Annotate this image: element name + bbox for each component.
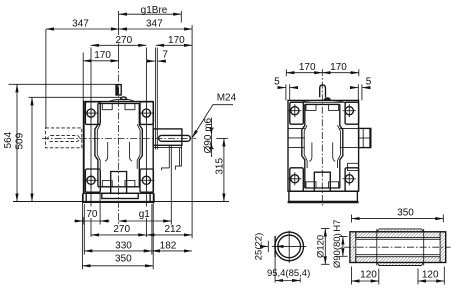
svg-text:70: 70 xyxy=(86,209,98,220)
dim 95,4 extension right xyxy=(299,278,301,283)
svg-text:g1Bre: g1Bre xyxy=(141,5,168,16)
side window bottom notch left xyxy=(306,182,316,188)
shaft bottom wall hatched xyxy=(356,257,440,263)
dim g1Bre right tick xyxy=(180,11,182,23)
dim 120 left line xyxy=(352,280,379,282)
inner rib left xyxy=(105,142,108,161)
bottom extension line 350-right xyxy=(152,194,154,269)
inner window right profile xyxy=(139,103,142,186)
bolt hole bottom-left xyxy=(83,173,99,189)
dim 95,4 arrows xyxy=(275,280,300,282)
dim 120 right line xyxy=(418,280,444,282)
dim 330 line xyxy=(84,250,152,252)
flange step bracket right xyxy=(175,145,181,169)
side bolt hole top-right xyxy=(343,104,356,117)
shaft right end cap hatched xyxy=(440,232,446,263)
ground baseline thin xyxy=(13,201,229,203)
side band line lower xyxy=(288,147,305,149)
extension dashed line from 347 left xyxy=(45,29,47,128)
top dome plug xyxy=(121,97,127,100)
center line vertical of side view xyxy=(321,69,323,206)
center line vertical of front view xyxy=(118,11,120,35)
side protruding flange block xyxy=(359,128,371,147)
side foot block xyxy=(289,191,358,201)
side window left profile xyxy=(302,104,305,188)
shaft top wall hatched xyxy=(356,232,440,238)
dim 212 line xyxy=(147,234,192,236)
bulge edge vertical left xyxy=(376,229,378,266)
svg-text:5: 5 xyxy=(274,76,280,87)
7-gap line b xyxy=(156,48,158,150)
dim D120 ticks xyxy=(321,228,330,230)
hidden coupling rectangle (dashed) xyxy=(46,128,82,148)
bottom extension line 182-left xyxy=(151,204,153,255)
svg-text:509: 509 xyxy=(14,132,25,149)
dim 350 shaft line xyxy=(352,218,444,220)
bottom center pocket xyxy=(111,172,127,194)
svg-text:350: 350 xyxy=(115,253,132,264)
svg-text:347: 347 xyxy=(146,19,163,30)
dim 347 right line xyxy=(119,28,192,30)
shaft left end cap hatched xyxy=(350,232,356,263)
svg-text:212: 212 xyxy=(164,224,181,235)
dim 182 line xyxy=(152,250,192,252)
dim 350 line xyxy=(82,265,153,267)
side bolt hole bottom-right xyxy=(343,172,356,185)
side inner window top edge xyxy=(305,103,340,105)
inner window top notch left xyxy=(102,103,112,109)
inner contour right xyxy=(137,124,140,169)
inner rib right xyxy=(130,142,133,161)
bolt hole bottom-right xyxy=(139,173,155,189)
hidden input shaft pill (dashed) xyxy=(48,135,80,141)
inner window top notch right xyxy=(125,103,135,109)
svg-text:25(22): 25(22) xyxy=(254,233,265,260)
section keyway chord xyxy=(274,236,276,257)
shaft mid bulge top xyxy=(377,229,424,232)
extension line right of 347/170/212/182 xyxy=(191,25,193,238)
svg-text:350: 350 xyxy=(397,208,414,219)
side bolt hole bottom-left xyxy=(288,172,301,185)
dim 170 top-left line xyxy=(83,60,119,62)
housing left outer edge line xyxy=(82,53,84,202)
top shaft stub xyxy=(116,85,121,95)
bottom extension line 350-left xyxy=(81,194,83,269)
dim D90(80) ticks xyxy=(339,236,348,238)
svg-text:330: 330 xyxy=(115,240,132,251)
509 reference line xyxy=(29,96,123,98)
side top stub (rounded) xyxy=(320,85,326,97)
shaft bore line bottom xyxy=(356,254,440,256)
side dim 5 right xyxy=(350,87,358,89)
side housing top crown xyxy=(300,100,345,102)
svg-text:g1: g1 xyxy=(139,209,151,220)
side inner contour right xyxy=(338,125,341,168)
svg-text:Ø120: Ø120 xyxy=(316,235,327,258)
foot left outer xyxy=(82,193,84,201)
dim 120 right ticks xyxy=(417,269,419,285)
dim 7 arrows xyxy=(147,60,155,62)
inner window bottom notch right xyxy=(125,181,135,187)
svg-text:120: 120 xyxy=(360,270,377,281)
bulge edge vertical right xyxy=(423,229,425,266)
bottom lug right xyxy=(140,169,153,192)
dim g1Bre line xyxy=(119,13,181,15)
svg-text:170: 170 xyxy=(299,62,316,73)
foot left inner xyxy=(85,192,87,201)
svg-text:347: 347 xyxy=(72,19,89,30)
side right boss rect xyxy=(348,163,359,170)
svg-text:170: 170 xyxy=(168,35,185,46)
dim 25(22) arrows xyxy=(262,245,268,247)
section circle inner xyxy=(278,235,301,258)
shaft outer rect xyxy=(350,232,446,263)
dim 350 shaft ticks xyxy=(351,215,353,223)
svg-text:Ø90(80): Ø90(80) xyxy=(332,233,343,268)
side shaft axis short xyxy=(288,137,305,139)
shaft bore line top xyxy=(356,238,440,240)
side window bottom edge xyxy=(305,187,340,189)
side dim 170 right line xyxy=(322,72,359,74)
shaft mid bulge bottom xyxy=(377,263,424,266)
dim 70 arrows and ticks xyxy=(74,220,83,222)
svg-text:182: 182 xyxy=(160,240,177,251)
bolt hole top-left xyxy=(83,105,99,121)
ground thick line under feet xyxy=(82,201,154,203)
flange block lower line xyxy=(153,147,182,149)
svg-text:170: 170 xyxy=(330,62,347,73)
flange support vertical b xyxy=(170,145,172,224)
svg-text:95,4(85,4): 95,4(85,4) xyxy=(267,268,310,279)
side top lug left xyxy=(290,102,304,124)
right bearing flange block xyxy=(153,129,182,145)
side ground thick line xyxy=(288,201,359,203)
side flange block right edge thick xyxy=(369,128,371,147)
side dim 170 left line xyxy=(286,72,322,74)
section circle outer xyxy=(275,232,304,261)
dim 315 top tick xyxy=(216,137,228,139)
inner window bottom notch left xyxy=(102,181,112,187)
flange step bracket left xyxy=(162,168,170,170)
side bolt hole top-left xyxy=(288,104,301,117)
svg-text:270: 270 xyxy=(115,35,132,46)
side housing top second line xyxy=(290,101,357,103)
side window top notch right xyxy=(329,104,339,110)
inner window top edge xyxy=(98,102,139,104)
inner window left profile xyxy=(95,103,98,186)
dim D120 line xyxy=(324,229,326,265)
side dim 170 ticks xyxy=(285,69,287,76)
side top lug right xyxy=(345,102,359,124)
side housing outline xyxy=(288,100,359,191)
bottom extension line 330-left xyxy=(83,204,85,255)
bottom lug left xyxy=(85,169,100,192)
inner contour left xyxy=(97,124,100,169)
svg-text:564: 564 xyxy=(3,131,14,148)
dim 315 line xyxy=(223,138,225,201)
foot right inner xyxy=(149,192,151,201)
dim g1 line xyxy=(119,220,172,222)
dim 509 line xyxy=(31,97,33,201)
dim 564 line xyxy=(16,84,18,201)
D90 m6 lower arrow (up) xyxy=(210,142,213,149)
side dim 5 left xyxy=(278,87,286,89)
dim 120 left ticks xyxy=(351,267,353,285)
side bottom lug left xyxy=(290,168,304,191)
dim 270 top line xyxy=(91,44,147,46)
side inner rib left xyxy=(309,143,312,162)
dim 25(22) tick xyxy=(267,241,269,252)
side flange block inner edge xyxy=(362,128,364,147)
side inner contour left xyxy=(304,125,307,168)
dim 270 bottom line xyxy=(91,234,146,236)
dim 170 top-right line xyxy=(156,44,192,46)
side dome plug filled xyxy=(324,97,331,100)
side bottom lug right xyxy=(345,168,359,191)
output shaft pill right xyxy=(159,135,191,141)
side flange axis xyxy=(359,137,371,139)
section crosshair horizontal xyxy=(272,245,306,247)
side bottom center pocket xyxy=(314,172,330,191)
dim D90(80) line xyxy=(342,237,344,257)
svg-text:170: 170 xyxy=(94,50,111,61)
housing outline xyxy=(84,102,153,194)
M24 leader line xyxy=(192,105,233,138)
side window right profile xyxy=(340,104,343,188)
svg-text:120: 120 xyxy=(422,270,439,281)
inner window bottom edge xyxy=(98,186,139,188)
bolt column line right xyxy=(145,48,147,207)
oil sump block xyxy=(102,193,138,198)
7-gap line a xyxy=(154,48,156,150)
section crosshair vertical xyxy=(288,231,290,263)
shaft axis center line horizontal xyxy=(42,137,196,139)
shaft center line xyxy=(344,246,451,248)
564 reference line xyxy=(9,83,117,85)
svg-text:315: 315 xyxy=(214,158,225,175)
bolt hole top-right xyxy=(139,105,155,121)
bolt column line left xyxy=(90,48,92,207)
bottom extension line 70-right xyxy=(99,192,101,224)
dim 347 left line xyxy=(46,28,119,30)
svg-text:5: 5 xyxy=(366,76,372,87)
side window top notch left xyxy=(306,104,316,110)
svg-text:H7: H7 xyxy=(332,220,343,232)
top shaft stub key (filled) xyxy=(116,85,118,95)
top lug left xyxy=(85,102,100,125)
flange support vertical c xyxy=(179,148,181,167)
dim 95,4 extension left xyxy=(274,257,276,282)
svg-text:270: 270 xyxy=(113,224,130,235)
D90 m6 vertical dim line at shaft end xyxy=(210,118,212,158)
top lug right xyxy=(140,102,153,125)
housing top crown line xyxy=(109,99,135,101)
D90 m6 upper arrow (down) xyxy=(210,128,213,135)
side window bottom notch right xyxy=(329,182,339,188)
foot right outer xyxy=(153,193,155,201)
side inner rib right xyxy=(333,143,336,162)
svg-text:M24: M24 xyxy=(217,92,237,103)
svg-text:7: 7 xyxy=(162,49,168,60)
side band line upper xyxy=(288,127,305,129)
flange support vertical a xyxy=(168,145,170,168)
